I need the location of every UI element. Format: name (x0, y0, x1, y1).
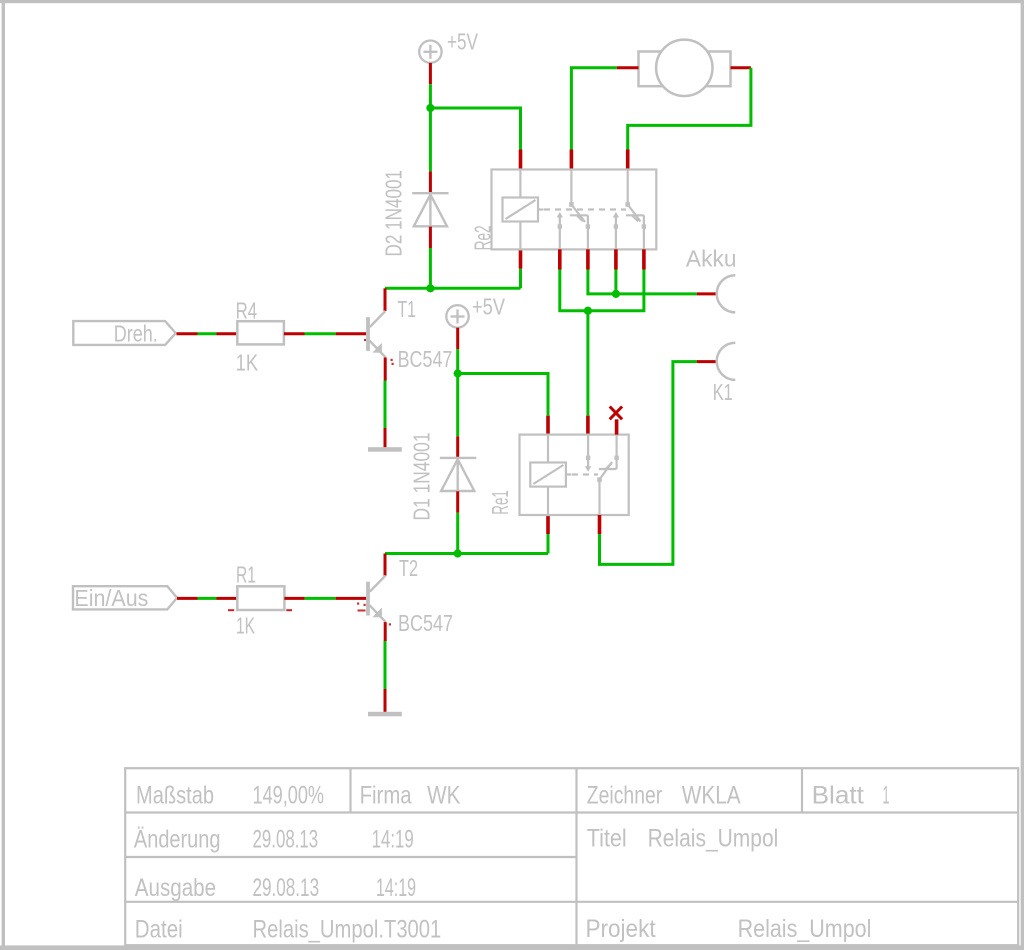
pin Re1 unconnected (615, 419, 619, 434)
artifact red specks near T2 (357, 603, 391, 626)
svg-text:+5V: +5V (447, 29, 478, 55)
relay Re1 (520, 435, 629, 515)
svg-text:Re1: Re1 (487, 490, 513, 515)
wire R1 to T2 base (305, 597, 336, 600)
wire junction down to Re1 (586, 311, 589, 416)
wire D1 anode to node (456, 513, 459, 554)
pin Re2 coil top (519, 150, 523, 170)
svg-text:Akku: Akku (686, 246, 737, 272)
svg-text:BC547: BC547 (398, 346, 453, 372)
wire junction to Re1 coil top (458, 374, 548, 416)
title row 3 texts (135, 874, 416, 902)
node junction Akku (612, 290, 620, 298)
wire motor left to Re2 pin (571, 68, 616, 150)
pin D2 anode (429, 227, 432, 248)
svg-text:+5V: +5V (472, 294, 506, 320)
no-connect cross X on Re1 pin (610, 407, 622, 420)
wire +5V vertical to D2 (429, 84, 432, 171)
svg-text:Änderung: Änderung (134, 825, 221, 853)
wire motor right to Re2 pin (628, 68, 751, 150)
node junction D2/T1/Re2coil (426, 284, 434, 292)
connector K1 (717, 343, 736, 380)
wire junction to Re2 coil top (430, 108, 520, 150)
svg-text:T1: T1 (398, 296, 417, 322)
svg-text:Relais_Umpol: Relais_Umpol (738, 915, 872, 943)
svg-text:R1: R1 (236, 562, 256, 588)
wire Re1 coil bottom to node (547, 534, 550, 554)
pin Akku (697, 292, 717, 295)
svg-text:Ein/Aus: Ein/Aus (74, 585, 148, 611)
svg-text:D2 1N4001: D2 1N4001 (381, 170, 407, 257)
svg-text:D1 1N4001: D1 1N4001 (409, 433, 435, 521)
svg-text:Projekt: Projekt (586, 915, 656, 943)
diode D2 pin cathode (429, 171, 432, 193)
pin Re1 common (598, 515, 602, 534)
svg-text:Re2: Re2 (470, 225, 496, 250)
svg-text:Blatt: Blatt (812, 781, 864, 809)
connector Akku (717, 275, 736, 312)
pin T2 collector (384, 554, 387, 576)
pin motor left (617, 66, 639, 69)
pin Re2 contact common 1 (570, 150, 574, 170)
wire Dreh to R4 (198, 332, 217, 335)
wire horizontal T1 collector to Re2 coil bottom (385, 287, 521, 290)
svg-text:Maßstab: Maßstab (136, 781, 214, 809)
pin Ein/Aus (177, 597, 198, 600)
svg-text:Ausgabe: Ausgabe (135, 874, 216, 902)
pin ground 2 (384, 689, 387, 712)
diode D1 pin cathode (456, 436, 459, 458)
resistor R1 (237, 586, 284, 610)
artifact red dashes under R1 (228, 609, 292, 611)
pin Re1 coil top (546, 416, 550, 435)
diode D1 1N4001 (440, 458, 476, 491)
svg-text:Firma: Firma (360, 781, 412, 809)
pin Re2 contact 2a (614, 249, 618, 269)
svg-text:WK: WK (427, 781, 461, 809)
pin of +5V top (429, 63, 432, 84)
svg-text:1K: 1K (236, 613, 255, 639)
svg-text:1: 1 (883, 781, 890, 809)
svg-text:Dreh.: Dreh. (114, 320, 158, 346)
wire R4 to T1 base (305, 332, 336, 335)
title row 4 texts (135, 915, 872, 944)
svg-text:Relais_Umpol: Relais_Umpol (648, 824, 779, 852)
svg-text:BC547: BC547 (398, 610, 453, 636)
pin T1 collector (384, 288, 387, 311)
pin Dreh (177, 332, 198, 335)
svg-text:14:19: 14:19 (376, 874, 416, 902)
pin Re1 contact NO (586, 416, 590, 435)
svg-text:Zeichner: Zeichner (587, 781, 662, 809)
title row 2 texts (134, 824, 778, 853)
pin Re2 contact common 2 (626, 150, 630, 170)
power symbol +5V (middle, VCC2) (446, 305, 468, 327)
wire T1 emitter to ground (384, 381, 387, 429)
svg-text:14:19: 14:19 (372, 825, 414, 853)
pin R4 left (217, 332, 238, 335)
svg-text:29.08.13: 29.08.13 (253, 825, 319, 853)
pin T2 base (336, 597, 366, 600)
svg-text:Titel: Titel (587, 824, 627, 852)
wire +5V middle down to D1 (456, 349, 459, 436)
wire cross net (contact1a to 2b) (560, 270, 644, 311)
pin T2 emitter (384, 622, 387, 641)
resistor R4 (237, 321, 284, 344)
pin R4 right (284, 332, 305, 335)
pin Re2 coil bottom (519, 249, 523, 268)
net label Ein/Aus (73, 585, 177, 611)
pin Re1 coil bottom (546, 515, 550, 534)
svg-text:WKLA: WKLA (682, 781, 741, 809)
transistor T1 BC547 (366, 311, 386, 358)
wire Akku net (588, 270, 697, 294)
pin R1 right (284, 597, 304, 600)
wire horizontal T2 collector to Re1 coil bottom (385, 552, 548, 555)
wire Ein/Aus to R1 (198, 597, 217, 600)
node junction at +5V net (426, 104, 434, 112)
wire D2 anode down to node (429, 248, 432, 288)
wire Re2 coil bottom vertical (519, 269, 522, 289)
wire contact2a down (614, 270, 617, 294)
ground symbol 1 (368, 447, 402, 452)
title row 1 texts (136, 781, 890, 809)
ground symbol 2 (368, 712, 402, 717)
svg-text:K1: K1 (713, 379, 733, 405)
wire Re1 common to K1 (600, 362, 697, 565)
wire T2 emitter to ground (384, 641, 387, 689)
pin ground 1 (384, 428, 387, 447)
title block frame (125, 768, 1018, 945)
pin T1 emitter (384, 358, 387, 381)
svg-text:R4: R4 (236, 297, 258, 323)
relay Re2 (492, 170, 657, 250)
motor M1 (639, 40, 731, 96)
node junction D1/T2/Re1coil (454, 549, 462, 557)
pin K1 (697, 360, 717, 363)
node junction +5V2 (454, 369, 462, 377)
svg-text:Datei: Datei (135, 916, 183, 944)
diode D2 1N4001 (412, 193, 448, 226)
pin Re2 contact 2b (642, 249, 646, 269)
svg-text:Relais_Umpol.T3001: Relais_Umpol.T3001 (253, 916, 442, 944)
pin +5V middle (456, 328, 459, 350)
pin motor right (731, 66, 751, 69)
svg-text:T2: T2 (399, 555, 418, 581)
pin R1 left (217, 597, 238, 600)
artifact red specks near T1 (364, 339, 394, 365)
net label Dreh. (73, 320, 175, 346)
svg-text:29.08.13: 29.08.13 (253, 874, 320, 902)
node junction cross net (584, 307, 592, 315)
power symbol +5V (top, VCC1) (419, 41, 441, 63)
pin T1 base (336, 332, 366, 335)
pin Re2 contact 1a (558, 249, 562, 269)
svg-text:149,00%: 149,00% (253, 781, 325, 809)
pin D1 anode (456, 491, 459, 512)
pin Re2 contact 1b (586, 249, 590, 269)
svg-text:1K: 1K (236, 350, 259, 376)
transistor T2 BC547 (366, 576, 386, 623)
